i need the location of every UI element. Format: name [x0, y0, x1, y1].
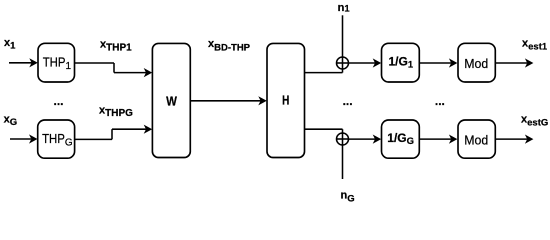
svg-text:...: ... — [343, 94, 353, 108]
wire THPG to W — [75, 125, 153, 140]
block Mod 1 — [458, 43, 495, 82]
svg-text:W: W — [166, 93, 177, 108]
adder sum junction 1 — [337, 57, 349, 69]
wire adder 1 to 1/G1 — [349, 58, 382, 67]
wire W to H — [190, 96, 266, 105]
svg-text:Mod: Mod — [464, 132, 488, 147]
svg-text:n1: n1 — [338, 2, 351, 14]
wire Mod 1 output arrow — [495, 58, 533, 67]
block Mod G — [458, 120, 495, 158]
block THPG — [38, 120, 75, 158]
wire n1 to adder 1 — [342, 15, 344, 57]
svg-text:...: ... — [435, 94, 445, 108]
wire Mod G output arrow — [495, 135, 533, 144]
svg-text:Mod: Mod — [464, 56, 488, 71]
block 1/G1 equalizer — [382, 43, 420, 82]
wire xG input arrow — [10, 134, 38, 143]
wire 1/GG to Mod G — [419, 135, 457, 144]
block W precoder — [152, 43, 190, 157]
wire x1 input arrow — [9, 58, 38, 67]
wire H to adder G — [305, 129, 343, 133]
adder sum junction G — [337, 133, 349, 145]
wire THP1 to W — [75, 63, 153, 77]
wire nG to adder G — [342, 145, 344, 179]
wire adder G to 1/GG — [349, 135, 382, 144]
svg-text:...: ... — [54, 94, 64, 108]
svg-text:H: H — [282, 94, 289, 108]
block 1/GG equalizer — [382, 120, 420, 158]
block H channel — [267, 43, 305, 157]
block THP1 — [38, 43, 75, 82]
wire 1/G1 to Mod 1 — [419, 58, 457, 67]
wire H to adder 1 — [305, 69, 343, 73]
